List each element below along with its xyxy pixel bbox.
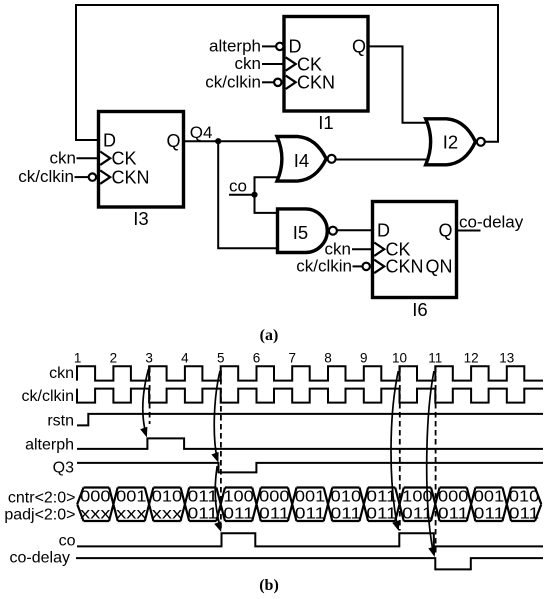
svg-text:CKN: CKN [112, 167, 150, 187]
svg-text:I3: I3 [133, 208, 148, 229]
svg-text:000: 000 [259, 489, 290, 506]
svg-text:alterph: alterph [25, 437, 74, 454]
wire: feedback net from I2 output, across top, down to I3 D input [76, 5, 498, 142]
wire ck/clkin to I1 CKN bubble [262, 81, 274, 83]
svg-text:1: 1 [74, 351, 82, 366]
node Q4: wire from I3 Q to I4 top input [184, 140, 284, 142]
wire ck/clkin to I6 CKN bubble [353, 265, 363, 267]
flip-flop I3 [99, 112, 184, 230]
I1 CKN pin triangle [286, 76, 296, 89]
wire ckn to I6 CK [352, 248, 373, 250]
svg-text:3: 3 [145, 351, 153, 366]
signal co waveform [77, 533, 543, 546]
signal alterph waveform [77, 438, 543, 449]
svg-text:alterph: alterph [209, 36, 261, 55]
svg-text:12: 12 [464, 351, 479, 366]
svg-text:Q: Q [352, 37, 366, 57]
dashed marker at cycle 5 [220, 370, 222, 531]
svg-text:D: D [377, 220, 390, 240]
junction on co net [251, 192, 257, 198]
svg-text:011: 011 [295, 505, 326, 522]
wire co stub [229, 194, 255, 196]
svg-text:6: 6 [253, 351, 261, 366]
svg-text:011: 011 [188, 489, 219, 506]
bus cntr/padj hexagonal cells [77, 488, 541, 522]
arrow: ckn edge 5 to Q3 fall [214, 371, 220, 458]
svg-text:010: 010 [152, 489, 183, 506]
svg-text:CK: CK [112, 149, 137, 169]
svg-text:ck/clkin: ck/clkin [18, 167, 74, 186]
svg-text:ck/clkin: ck/clkin [205, 73, 261, 92]
svg-text:xxx: xxx [116, 505, 146, 522]
cycle numbers 1-13 [74, 351, 514, 366]
svg-text:7: 7 [288, 351, 296, 366]
I1 CK pin triangle [286, 57, 296, 70]
svg-text:co-delay: co-delay [10, 550, 70, 567]
svg-text:CKN: CKN [386, 257, 424, 277]
svg-text:000: 000 [80, 489, 111, 506]
I6 CKN input bubble [363, 263, 370, 270]
I6 CK pin triangle [374, 243, 384, 256]
I4 output bubble [328, 155, 336, 163]
I5 output bubble [329, 227, 337, 235]
svg-text:I6: I6 [412, 299, 427, 320]
svg-text:9: 9 [360, 351, 368, 366]
svg-text:I1: I1 [318, 112, 333, 133]
svg-text:ckn: ckn [235, 54, 261, 73]
I1 D input inversion bubble [276, 43, 283, 50]
svg-text:ck/clkin: ck/clkin [296, 257, 352, 276]
I1 CKN input bubble [274, 79, 281, 86]
wire I6 Q to co-delay output [457, 230, 481, 232]
svg-text:11: 11 [428, 351, 442, 366]
NOR gate I4 [277, 137, 326, 182]
svg-text:10: 10 [392, 351, 407, 366]
junction on Q4 net [215, 138, 221, 144]
svg-text:xxx: xxx [152, 505, 182, 522]
svg-text:ckn: ckn [50, 148, 76, 167]
I3 CK pin triangle [100, 152, 110, 165]
wire I5 output to I6 D [337, 229, 373, 231]
svg-text:Q: Q [438, 220, 452, 240]
arrow: ckn edge 10 to co rise [391, 371, 398, 527]
svg-text:100: 100 [223, 489, 254, 506]
svg-text:CK: CK [297, 54, 322, 74]
svg-text:ck/clkin: ck/clkin [22, 388, 74, 405]
svg-text:010: 010 [509, 489, 540, 506]
signal Q3 waveform [77, 463, 543, 473]
arrow: Q3 to co rise [215, 466, 220, 527]
svg-text:011: 011 [331, 505, 362, 522]
I3 CKN input bubble [89, 173, 96, 180]
svg-text:010: 010 [331, 489, 362, 506]
wire alterph to I1 D [262, 45, 276, 47]
svg-text:5: 5 [217, 351, 225, 366]
svg-text:011: 011 [509, 505, 540, 522]
NOR gate I2 [426, 119, 476, 165]
arrow: ckn edge 3 to alterph rise [143, 369, 149, 433]
svg-text:I4: I4 [294, 150, 309, 171]
wire co down to I5 upper input [255, 195, 281, 213]
svg-text:011: 011 [438, 505, 469, 522]
signal ckn waveform [77, 366, 543, 380]
svg-text:ckn: ckn [49, 365, 74, 382]
svg-text:padj<2:0>: padj<2:0> [4, 506, 75, 523]
svg-text:8: 8 [324, 351, 332, 366]
flip-flop I6 [373, 202, 457, 321]
svg-text:xxx: xxx [80, 505, 110, 522]
wire ckn to I3 CK [77, 157, 99, 159]
NAND gate I5 [278, 209, 328, 253]
dashed marker at cycle 11 [435, 367, 437, 556]
svg-text:001: 001 [474, 489, 505, 506]
wire I1 Q to I2 top input [368, 46, 432, 122]
svg-text:I2: I2 [443, 132, 458, 153]
wire ck/clkin to I3 CKN bubble [75, 176, 89, 178]
svg-text:rstn: rstn [47, 413, 74, 430]
bus cell values [80, 489, 539, 523]
svg-text:Q3: Q3 [53, 460, 74, 477]
wire Q4 down to I5 lower input [218, 141, 280, 248]
svg-text:QN: QN [426, 257, 453, 277]
svg-text:011: 011 [223, 505, 254, 522]
svg-text:13: 13 [499, 351, 514, 366]
flip-flop I1 [284, 17, 368, 134]
svg-text:Q: Q [166, 131, 180, 151]
signal ck/clkin waveform [77, 389, 543, 403]
I3 CKN pin triangle [100, 170, 110, 183]
svg-text:011: 011 [474, 505, 505, 522]
svg-text:co-delay: co-delay [459, 213, 524, 232]
signal rstn waveform [77, 414, 543, 426]
svg-text:cntr<2:0>: cntr<2:0> [8, 490, 76, 507]
svg-text:011: 011 [366, 505, 397, 522]
svg-text:011: 011 [188, 505, 219, 522]
dashed marker at cycle 10 [399, 367, 401, 531]
svg-text:Q4: Q4 [190, 123, 213, 142]
signal co-delay waveform [76, 558, 543, 569]
svg-text:(a): (a) [260, 327, 279, 344]
svg-text:CKN: CKN [297, 73, 335, 93]
svg-text:001: 001 [116, 489, 147, 506]
dashed marker at cycle 3 [149, 367, 151, 424]
svg-text:000: 000 [438, 489, 469, 506]
I6 CKN pin triangle [374, 260, 384, 273]
svg-text:2: 2 [110, 351, 118, 366]
svg-text:co: co [59, 533, 76, 550]
wire I4 output to I2 lower input [336, 159, 432, 161]
I2 output bubble [477, 138, 485, 146]
svg-text:ckn: ckn [325, 239, 351, 258]
svg-text:(b): (b) [259, 577, 279, 594]
svg-text:I5: I5 [293, 222, 308, 243]
svg-text:001: 001 [295, 489, 326, 506]
arrow: ckn edge 11 to co-delay fall [427, 371, 434, 551]
wire co up to I4 lower input [255, 177, 284, 194]
wire ckn to I1 CK [262, 63, 284, 65]
svg-text:011: 011 [259, 505, 290, 522]
svg-text:4: 4 [181, 351, 189, 366]
svg-text:co: co [229, 177, 247, 196]
